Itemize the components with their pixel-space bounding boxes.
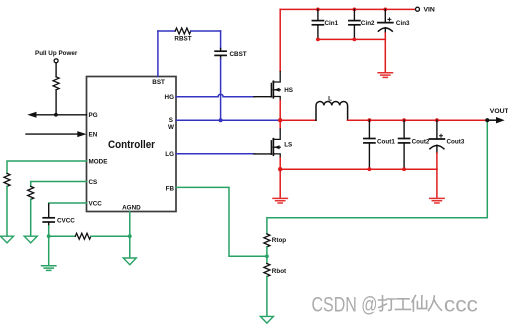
ground AGND triangle <box>123 258 136 265</box>
capacitor CVCC <box>43 204 54 226</box>
capacitor Cout1 <box>364 120 375 169</box>
svg-text:CSDN @: CSDN @ <box>312 292 378 316</box>
wire VIN rail red <box>280 8 415 10</box>
resistor R-cs <box>28 186 34 199</box>
svg-text:HS: HS <box>284 87 293 94</box>
svg-text:Cout2: Cout2 <box>412 138 430 145</box>
watermark CJK gong <box>396 299 411 310</box>
node VOUT junction <box>485 118 489 122</box>
wire Cin3 lower lead red <box>384 33 386 39</box>
resistor pull-up <box>53 77 59 90</box>
ground CS triangle <box>24 236 37 243</box>
svg-text:AGND: AGND <box>122 205 141 212</box>
svg-text:W: W <box>168 124 174 131</box>
svg-text:EN: EN <box>89 131 98 138</box>
resistor Rbot <box>264 264 270 277</box>
node PG pull-up junction <box>54 113 58 117</box>
node Cin1 bottom <box>316 38 320 42</box>
wire Cout bottom tie red <box>280 168 437 170</box>
node CVCC junction <box>47 234 51 238</box>
wire CBST lower blue to S node <box>220 59 222 121</box>
svg-text:VIN: VIN <box>424 7 435 14</box>
ground CVCC earth green <box>42 266 56 271</box>
resistor RBST <box>175 28 191 34</box>
capacitor Cout2 <box>399 120 410 169</box>
wire CVCC junction to ground green <box>48 236 50 265</box>
wire resistor to AGND node green <box>91 235 130 237</box>
wire MODE green <box>7 161 87 173</box>
wire AGND pin drop green <box>129 212 131 258</box>
node Cin2 bottom <box>353 38 357 42</box>
svg-text:CS: CS <box>89 179 98 186</box>
resistor Rtop <box>264 234 270 247</box>
wire RBST top right blue <box>191 30 221 32</box>
wire R-mode to ground green <box>6 186 8 236</box>
watermark CJK ren <box>429 296 442 311</box>
op-amp U1 controller box <box>87 77 177 212</box>
svg-text:VOUT: VOUT <box>490 108 508 115</box>
wire Cout3 ground drop red <box>436 169 438 198</box>
svg-text:MODE: MODE <box>89 158 108 165</box>
node VIN Cin1 <box>316 7 320 11</box>
wire R-cs to ground green <box>30 199 32 236</box>
svg-text:S: S <box>169 117 173 124</box>
wire VIN to HS drain red <box>279 9 281 71</box>
node Cout3 top <box>435 118 439 122</box>
svg-text:RBST: RBST <box>174 36 191 43</box>
wire junction to resistor green <box>49 235 76 237</box>
wire CVCC to junction green <box>48 226 50 236</box>
resistor R-mode <box>4 173 10 186</box>
terminal VOUT arrow <box>487 119 496 121</box>
wire Cout3 lower lead red <box>436 153 438 169</box>
wire SW to inductor red <box>280 119 316 121</box>
wire S W blue <box>176 119 279 121</box>
transistor Q1 HS mosfet <box>271 72 280 101</box>
node Cout1 bottom <box>368 167 372 171</box>
node junction CBST to S <box>219 118 223 122</box>
wire LS source red <box>279 158 281 170</box>
ground MODE triangle <box>1 236 14 243</box>
terminal VIN <box>416 7 420 11</box>
svg-text:CVCC: CVCC <box>57 217 75 224</box>
svg-text:L: L <box>328 95 332 102</box>
wire LG black gate lead <box>254 153 271 155</box>
svg-text:VCC: VCC <box>89 200 103 207</box>
transistor Q2 LS mosfet <box>279 120 281 129</box>
wire Cin bottom tie red <box>318 38 385 40</box>
inductor L <box>316 101 348 120</box>
node SW junction <box>278 118 282 122</box>
svg-text:Cout1: Cout1 <box>377 138 395 145</box>
svg-text:HG: HG <box>165 94 175 101</box>
watermark CSDN <box>312 292 378 316</box>
svg-text:Cin2: Cin2 <box>361 20 375 27</box>
wire FB green <box>176 187 267 256</box>
wire HG black gate lead <box>254 96 271 98</box>
svg-text:LG: LG <box>165 151 174 158</box>
wire Rtop to junction green <box>266 247 268 256</box>
wire BST blue vertical <box>157 31 159 77</box>
capacitor Cin2 <box>349 9 360 39</box>
resistor R-agnd <box>75 233 91 239</box>
node VIN Cin2 <box>353 7 357 11</box>
node Cout1 top <box>368 118 372 122</box>
capacitor Cin1 <box>312 9 323 39</box>
capacitor Cin3 polarized <box>378 9 393 33</box>
node VIN Cin3 <box>383 7 387 11</box>
ground Cout earth red <box>430 198 444 203</box>
svg-text:LS: LS <box>284 141 292 148</box>
watermark CJK da <box>379 296 396 311</box>
ground Rbot triangle <box>260 316 273 323</box>
node LS source junction <box>278 167 282 171</box>
wire inductor to VOUT red <box>348 119 488 121</box>
ground LS earth red <box>273 198 287 203</box>
ground VIN earth red <box>378 73 392 78</box>
node Cout2 bottom <box>402 167 406 171</box>
svg-text:BST: BST <box>152 79 165 86</box>
wire CBST upper blue <box>220 31 222 49</box>
watermark ccc <box>444 292 478 316</box>
wire Cin ground drop red <box>384 39 386 72</box>
wire CS green <box>31 182 87 187</box>
svg-text:FB: FB <box>166 186 175 193</box>
wire VCC green <box>49 203 87 205</box>
wire HS source red <box>279 100 281 120</box>
svg-text:Rbot: Rbot <box>272 268 287 275</box>
wire Rbot to ground green <box>266 277 268 317</box>
wire HG blue with hop over CBST wire <box>176 94 254 97</box>
wire PG with arrow <box>36 114 87 116</box>
svg-text:Rtop: Rtop <box>272 237 286 244</box>
svg-text:PG: PG <box>89 112 98 119</box>
svg-text:Cin3: Cin3 <box>396 20 410 27</box>
node FB divider junction <box>265 254 269 258</box>
node Cout2 top <box>402 118 406 122</box>
node AGND junction <box>128 234 132 238</box>
svg-text:Cin1: Cin1 <box>325 20 339 27</box>
svg-text:Pull Up Power: Pull Up Power <box>35 50 78 57</box>
capacitor Cout3 polarized <box>429 120 444 153</box>
svg-text:ccc: ccc <box>444 292 478 316</box>
wire LG blue <box>176 153 254 155</box>
wire pull-up lower black <box>55 90 57 115</box>
capacitor CBST <box>215 49 226 59</box>
wire EN with arrow <box>26 133 78 135</box>
wire junction to Rbot green <box>266 256 268 263</box>
wire VOUT sense drop green <box>267 120 487 234</box>
wire LS ground drop red <box>279 169 281 198</box>
watermark CJK xian <box>412 296 427 312</box>
svg-text:CBST: CBST <box>230 51 247 58</box>
svg-text:Cout3: Cout3 <box>447 138 465 145</box>
svg-text:Controller: Controller <box>108 139 156 151</box>
wire RBST top left blue <box>158 30 175 32</box>
wire pull-up upper black <box>55 63 57 77</box>
